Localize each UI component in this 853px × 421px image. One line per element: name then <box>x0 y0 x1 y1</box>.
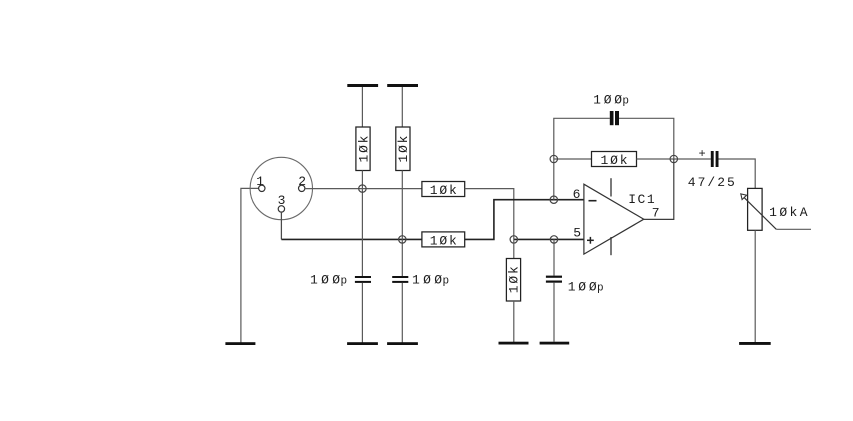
svg-text:p: p <box>443 276 450 288</box>
op-amp top power stub <box>610 178 612 196</box>
wire feedback row left <box>554 158 592 160</box>
wire pin2 to upper row <box>305 188 422 190</box>
wire C1 to ground <box>361 283 363 343</box>
wire C4 to right corner <box>619 118 674 159</box>
svg-text:1Øk: 1Øk <box>430 234 457 249</box>
svg-text:6: 6 <box>573 187 581 202</box>
node junction at 554,239 <box>550 236 557 243</box>
svg-text:3: 3 <box>278 193 286 208</box>
potentiometer P1 10kA <box>741 188 808 230</box>
wire R2 to lower junction <box>401 171 403 240</box>
svg-text:7: 7 <box>652 206 660 221</box>
wire C3 drop <box>553 239 555 275</box>
wire feedback top loop <box>554 118 610 159</box>
ground G6 <box>739 342 771 345</box>
node junction at 402,239 <box>399 236 406 243</box>
wire output to feedback riser <box>644 159 674 219</box>
ground G2 <box>347 342 378 345</box>
resistor R6 10k feedback <box>592 152 637 167</box>
svg-text:1Øk: 1Øk <box>601 153 628 168</box>
capacitor C2 100p <box>392 273 449 288</box>
op-amp plus sign <box>587 237 594 244</box>
svg-text:1Øk: 1Øk <box>396 135 411 162</box>
power bar P1 <box>347 84 378 87</box>
svg-text:IC1: IC1 <box>628 192 655 207</box>
op-amp U1 triangle <box>584 184 644 254</box>
svg-text:1: 1 <box>256 174 264 189</box>
ground G4 <box>499 342 529 345</box>
svg-text:1Øk: 1Øk <box>356 135 371 162</box>
capacitor C5 47/25 electrolytic <box>688 147 735 190</box>
wire C3 to ground <box>553 283 555 342</box>
pin 2 circle <box>299 185 305 191</box>
pin 3 circle <box>278 206 284 212</box>
wire C2 to ground <box>401 283 403 343</box>
wire P1 to R1 <box>361 87 363 127</box>
resistor R2 10k vertical <box>396 127 410 171</box>
capacitor C1 100p <box>310 273 371 288</box>
wire feedback drop to pin6 <box>553 159 555 200</box>
svg-text:47/25: 47/25 <box>688 175 735 190</box>
capacitor C4 100p feedback <box>593 93 629 126</box>
svg-text:p: p <box>622 96 629 108</box>
svg-text:p: p <box>341 276 348 288</box>
ground G3 <box>387 342 418 345</box>
wire pin5 row <box>514 238 584 240</box>
wire pin1 to left corner <box>241 188 259 342</box>
svg-text:1Øk: 1Øk <box>507 266 522 293</box>
svg-text:5: 5 <box>573 226 581 241</box>
resistor R3 10k vertical <box>506 259 520 302</box>
pin 1 circle <box>259 185 265 191</box>
wire C5 to pot corner <box>719 159 756 188</box>
node junction at 362,189 <box>359 185 366 192</box>
op-amp bottom power stub <box>610 237 612 255</box>
resistor R4 10k horizontal upper <box>422 182 465 197</box>
node junction at 673,159 <box>670 155 677 162</box>
wire R1 to junction <box>361 171 363 189</box>
wire R3 to ground <box>513 301 515 342</box>
svg-text:1Øk: 1Øk <box>430 183 457 198</box>
svg-text:1ØØ: 1ØØ <box>310 273 340 288</box>
op-amp minus sign <box>589 200 597 202</box>
svg-text:1ØØ: 1ØØ <box>593 93 622 108</box>
capacitor C3 100p <box>546 276 604 295</box>
wire R4 to drop <box>465 189 514 240</box>
node junction at 554,200 <box>550 196 557 203</box>
ground G5 <box>540 342 570 345</box>
wire junction down to C1 <box>361 189 363 276</box>
svg-text:+: + <box>699 147 706 161</box>
svg-text:p: p <box>597 283 604 295</box>
power bar P2 <box>387 84 418 87</box>
wire pin3 drop <box>280 212 282 239</box>
svg-text:2: 2 <box>298 174 306 189</box>
wire pot wiper terminal <box>776 228 811 230</box>
resistor R5 10k horizontal lower <box>422 232 465 247</box>
wire R5 up to pin6 row <box>465 200 584 240</box>
wire P2 to R2 <box>401 87 403 127</box>
node junction at 554,159 <box>550 155 557 162</box>
resistor R1 10k vertical <box>356 127 370 171</box>
wire junction to R3 <box>513 239 515 258</box>
connector XLR circle <box>250 157 312 219</box>
svg-text:1ØØ: 1ØØ <box>568 280 597 295</box>
wire feedback row right <box>637 158 711 160</box>
svg-text:1ØØ: 1ØØ <box>412 273 442 288</box>
ground G1 <box>225 342 255 345</box>
wire junction down to C2 <box>401 239 403 276</box>
wire pin3 row to lower resistor <box>281 238 422 240</box>
wire pot to ground <box>754 230 756 342</box>
node junction at 514,239 <box>510 236 517 243</box>
